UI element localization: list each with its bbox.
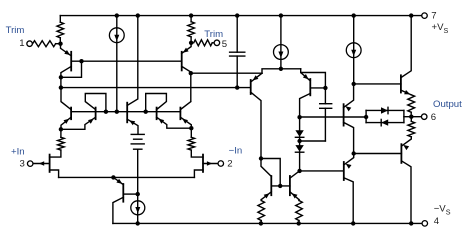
svg-text:−In: −In (229, 146, 243, 157)
svg-text:Trim: Trim (6, 25, 25, 36)
svg-text:1: 1 (19, 38, 24, 49)
svg-text:Output: Output (433, 99, 462, 110)
svg-text:7: 7 (431, 11, 436, 22)
svg-text:4: 4 (434, 216, 440, 227)
svg-text:3: 3 (19, 158, 24, 169)
svg-text:+VS: +VS (432, 22, 449, 35)
svg-text:Trim: Trim (204, 29, 223, 40)
svg-text:6: 6 (431, 112, 436, 123)
svg-text:+In: +In (11, 146, 25, 157)
svg-text:2: 2 (227, 159, 232, 170)
svg-text:5: 5 (222, 39, 227, 50)
svg-text:−VS: −VS (434, 204, 451, 217)
